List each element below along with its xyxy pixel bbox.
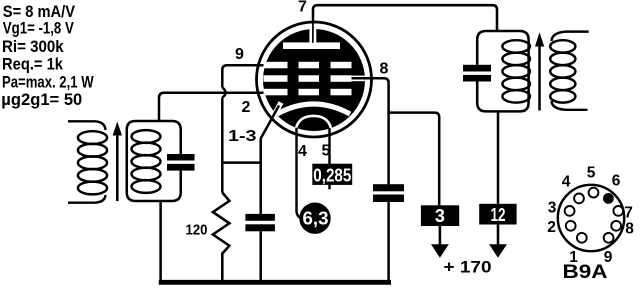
svg-text:8: 8 bbox=[380, 60, 389, 77]
svg-text:2: 2 bbox=[547, 219, 556, 236]
socket pin 9 bbox=[604, 233, 614, 243]
svg-text:3: 3 bbox=[435, 206, 445, 226]
cathode capacitor wire to ground rail bbox=[259, 231, 262, 282]
anode wire pin 7 to output transformer bbox=[313, 5, 497, 31]
svg-text:4: 4 bbox=[298, 143, 307, 160]
output transformer secondary winding bbox=[550, 32, 589, 110]
heater voltage circle 6,3 bbox=[299, 203, 330, 234]
ground rail bbox=[159, 280, 391, 285]
tube data text block bbox=[1, 2, 94, 109]
svg-text:120: 120 bbox=[186, 222, 208, 239]
wire from tank bottom to ground rail bbox=[159, 201, 162, 282]
input tank capacitor bbox=[167, 154, 195, 171]
grid dashes g2 row bbox=[264, 75, 352, 82]
resistor 120 (cathode resistor) bbox=[213, 193, 230, 283]
output tank capacitor bbox=[463, 65, 491, 82]
anode lead line inside tube bbox=[312, 22, 314, 43]
heater lead pin 5 to 0,285 box bbox=[328, 128, 330, 164]
socket pin 6 (marked) bbox=[603, 193, 614, 204]
svg-text:5: 5 bbox=[322, 142, 331, 159]
arrow below box 3 bbox=[431, 226, 449, 258]
B9A socket outline bbox=[558, 185, 624, 251]
heater lead pin 4 to 6,3 circle bbox=[297, 128, 305, 219]
socket pin 3 bbox=[565, 206, 575, 216]
wire from tank top to grid g1 (pin 2) bbox=[159, 93, 266, 121]
svg-text:7: 7 bbox=[624, 205, 633, 222]
svg-text:µg2g1= 50: µg2g1= 50 bbox=[1, 90, 82, 109]
socket pin 2 bbox=[566, 221, 576, 231]
cathode arc bbox=[277, 104, 350, 114]
wire output transformer primary to box 12 bbox=[497, 111, 500, 203]
anode lead channel bbox=[309, 29, 316, 44]
cathode lead white underlay bbox=[265, 103, 282, 134]
svg-text:6: 6 bbox=[612, 173, 621, 190]
svg-text:Req.= 1k: Req.= 1k bbox=[2, 54, 64, 73]
svg-text:8: 8 bbox=[625, 221, 634, 238]
screen bypass capacitor bbox=[373, 184, 404, 202]
socket pin 5 bbox=[589, 188, 599, 198]
heater lead stub below box bbox=[328, 185, 330, 189]
output tuned-circuit loop wire bbox=[477, 31, 528, 111]
svg-text:0,285: 0,285 bbox=[313, 166, 351, 186]
cathode wire (pins 1-3) diagonal and down bbox=[261, 106, 279, 215]
arrow below box 12 bbox=[489, 225, 507, 258]
svg-text:B9A: B9A bbox=[563, 262, 608, 283]
supply feed wire to box 3 bbox=[389, 113, 440, 206]
tube V1 envelope bbox=[257, 22, 372, 137]
input transformer core arrow bbox=[113, 122, 122, 202]
svg-text:4: 4 bbox=[562, 174, 571, 191]
input transformer secondary winding bbox=[132, 130, 161, 193]
svg-text:9: 9 bbox=[235, 46, 244, 63]
wire pin 9 (g3) down to cathode network, with crossover hop bbox=[222, 65, 265, 192]
screen grid lead white channel bbox=[351, 76, 366, 82]
screen wire pin 8 bbox=[351, 78, 389, 184]
svg-text:7: 7 bbox=[298, 0, 307, 16]
socket pin number labels bbox=[547, 165, 634, 267]
output transformer primary winding bbox=[502, 40, 530, 102]
socket pin 1 bbox=[577, 233, 587, 243]
svg-text:1-3: 1-3 bbox=[228, 128, 257, 145]
input transformer primary winding bbox=[68, 121, 107, 202]
cathode bypass capacitor bbox=[245, 214, 275, 231]
heater current box 0,285 bbox=[312, 164, 352, 186]
grid dashes g3 row bbox=[264, 62, 352, 69]
svg-text:5: 5 bbox=[587, 165, 596, 182]
svg-text:6,3: 6,3 bbox=[303, 209, 329, 229]
grid dashes g1 row bbox=[264, 89, 352, 96]
anode plate bar bbox=[283, 42, 340, 49]
supply box 12 bbox=[479, 204, 516, 225]
svg-text:Pa=max. 2,1 W: Pa=max. 2,1 W bbox=[2, 73, 94, 92]
svg-text:12: 12 bbox=[491, 205, 506, 225]
socket pin 7 bbox=[613, 206, 623, 216]
socket pin 8 bbox=[611, 221, 621, 231]
svg-text:Ri= 300k: Ri= 300k bbox=[2, 37, 64, 56]
svg-text:3: 3 bbox=[548, 200, 557, 217]
tube V1 electrode assembly (black disc) bbox=[263, 29, 365, 131]
supply box 3 bbox=[421, 205, 459, 226]
svg-text:+ 170: + 170 bbox=[444, 258, 492, 277]
heater dome bbox=[296, 116, 331, 129]
svg-text:2: 2 bbox=[242, 99, 251, 116]
svg-text:Vg1= -1,8 V: Vg1= -1,8 V bbox=[3, 19, 74, 38]
junction wire cathode to resistor line bbox=[221, 161, 262, 164]
output transformer core arrow bbox=[535, 32, 544, 110]
socket pin 4 bbox=[574, 194, 584, 204]
input tuned-circuit loop wire bbox=[127, 121, 181, 201]
screen capacitor wire to ground rail bbox=[387, 202, 390, 282]
